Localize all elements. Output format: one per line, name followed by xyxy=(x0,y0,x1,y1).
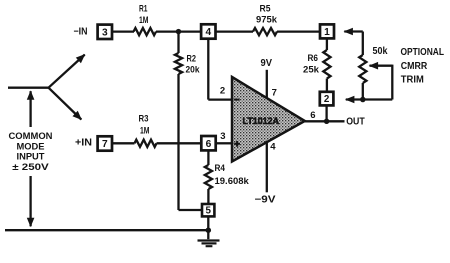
svg-text:50k: 50k xyxy=(373,46,388,57)
svg-text:3: 3 xyxy=(220,131,225,142)
svg-text:R1: R1 xyxy=(139,4,148,15)
svg-text:25k: 25k xyxy=(303,64,320,75)
svg-text:7: 7 xyxy=(102,139,108,150)
svg-text:OPTIONAL: OPTIONAL xyxy=(401,47,445,58)
svg-text:R3: R3 xyxy=(139,114,149,125)
svg-text:CMRR: CMRR xyxy=(401,61,428,72)
svg-text:5: 5 xyxy=(205,206,211,217)
svg-text:2: 2 xyxy=(324,94,330,105)
svg-text:9V: 9V xyxy=(261,58,273,69)
svg-text:INPUT: INPUT xyxy=(17,152,45,162)
svg-text:TRIM: TRIM xyxy=(401,75,424,86)
svg-text:1M: 1M xyxy=(140,125,150,136)
svg-text:−IN: −IN xyxy=(74,26,88,37)
svg-text:R2: R2 xyxy=(187,54,197,65)
svg-text:20k: 20k xyxy=(186,65,201,76)
svg-text:−9V: −9V xyxy=(255,194,277,205)
svg-text:LT1012A: LT1012A xyxy=(243,116,280,126)
svg-text:975k: 975k xyxy=(256,14,278,25)
svg-text:± 250V: ± 250V xyxy=(12,162,50,172)
svg-text:4: 4 xyxy=(270,142,276,153)
svg-text:R6: R6 xyxy=(308,53,319,64)
svg-text:2: 2 xyxy=(220,85,225,96)
svg-text:7: 7 xyxy=(272,87,277,98)
svg-text:4: 4 xyxy=(205,27,211,38)
svg-text:1: 1 xyxy=(324,27,330,38)
svg-text:6: 6 xyxy=(206,139,212,150)
svg-text:3: 3 xyxy=(102,28,108,39)
svg-text:MODE: MODE xyxy=(17,141,45,151)
svg-text:COMMON: COMMON xyxy=(9,131,53,141)
svg-text:OUT: OUT xyxy=(346,116,365,127)
svg-text:+IN: +IN xyxy=(75,137,92,148)
svg-text:1M: 1M xyxy=(139,15,149,26)
svg-text:R4: R4 xyxy=(215,163,226,174)
svg-text:6: 6 xyxy=(310,110,315,121)
svg-text:R5: R5 xyxy=(260,4,272,15)
svg-text:19.608k: 19.608k xyxy=(215,176,250,187)
